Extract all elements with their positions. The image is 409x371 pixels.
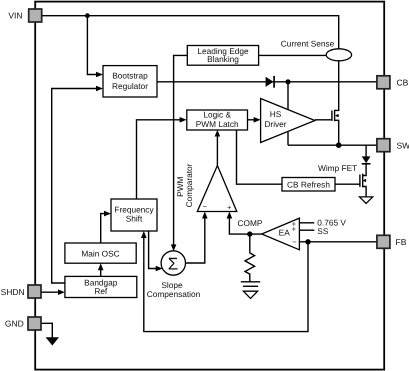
svg-text:PWM Latch: PWM Latch (196, 119, 239, 129)
svg-text:SS: SS (317, 226, 329, 236)
svg-text:−: − (292, 238, 297, 247)
svg-text:Main OSC: Main OSC (81, 249, 119, 259)
svg-text:Ref: Ref (94, 286, 108, 296)
svg-text:SHDN: SHDN (1, 287, 25, 297)
svg-text:CB: CB (397, 77, 409, 87)
svg-text:CB Refresh: CB Refresh (287, 180, 330, 190)
svg-text:Current Sense: Current Sense (281, 39, 335, 49)
svg-text:−: − (202, 202, 207, 211)
svg-text:Bootstrap: Bootstrap (112, 71, 148, 81)
svg-text:Blanking: Blanking (207, 54, 239, 64)
svg-text:Compensation: Compensation (147, 289, 201, 299)
svg-text:Regulator: Regulator (112, 81, 148, 91)
svg-text:FB: FB (396, 237, 407, 247)
svg-text:Wimp FET: Wimp FET (318, 163, 357, 173)
svg-text:VIN: VIN (8, 10, 22, 20)
svg-text:GND: GND (5, 319, 24, 329)
svg-text:+: + (292, 225, 297, 234)
svg-text:SW: SW (397, 141, 409, 151)
svg-text:Driver: Driver (264, 119, 286, 129)
svg-text:COMP: COMP (238, 218, 263, 228)
svg-text:Σ: Σ (168, 254, 179, 273)
svg-text:Comparator: Comparator (184, 163, 194, 207)
svg-text:+: + (227, 203, 232, 212)
svg-text:EA: EA (279, 228, 291, 238)
svg-text:Shift: Shift (126, 214, 143, 224)
svg-text:HS: HS (270, 109, 282, 119)
